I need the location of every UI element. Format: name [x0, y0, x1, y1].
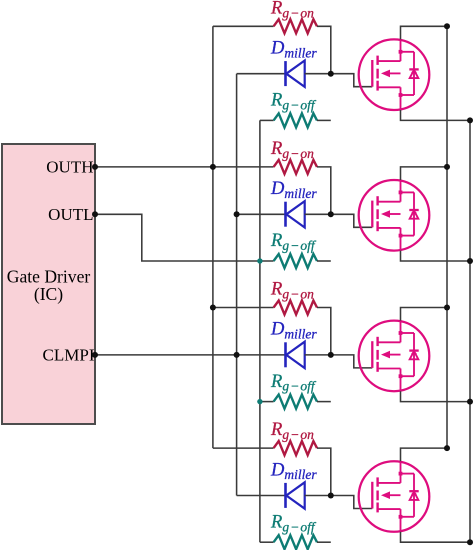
junction source bus cell 4 — [467, 539, 473, 545]
svg-text:CLMPI: CLMPI — [43, 346, 95, 365]
diode Dmiller (cell 3) — [286, 342, 305, 368]
resistor Rg-on (cell 2) — [274, 160, 317, 174]
junction clamp bus cell 3 — [234, 352, 240, 358]
junction source bus cell 3 — [467, 399, 473, 405]
resistor Rg-off (cell 1) — [274, 113, 317, 127]
junction drain bus cell 3 — [444, 305, 450, 311]
wire source lead Q3 to source bus — [401, 391, 471, 401]
transistor Q1 (MOSFET with body diode) — [359, 39, 430, 110]
transistor Q4 (MOSFET with body diode) — [359, 461, 430, 532]
wire Dmiller row cell 1: clamp bus to diode cathode — [237, 73, 286, 75]
wire gate node to MOSFET gate cell 2 — [331, 214, 373, 227]
junction pin OUTH — [92, 164, 98, 170]
resistor Rg-off (cell 2) — [274, 254, 317, 268]
wire Rg-on to gate node cell 2 — [317, 167, 331, 214]
wire gate node to MOSFET gate cell 1 — [331, 74, 373, 87]
wire Dmiller anode to gate node cell 3 — [305, 354, 331, 356]
junction gate node cell 2 — [328, 211, 334, 217]
wire Dmiller anode to gate node cell 4 — [305, 495, 331, 497]
svg-text:Rg − off: Rg − off — [270, 372, 317, 394]
junction drain bus cell 2 — [444, 164, 450, 170]
wire Dmiller row cell 2: clamp bus to diode cathode — [237, 213, 286, 215]
junction gate node cell 4 — [328, 493, 334, 499]
wire Rg-on row cell 3: bus to resistor — [213, 307, 274, 309]
junction source bus cell 2 — [467, 258, 473, 264]
wire Rg-off to gate node cell 4 — [317, 541, 331, 543]
wire Rg-off row cell 4: bus to resistor — [260, 541, 274, 543]
wire drain lead Q4 to drain bus — [401, 448, 448, 461]
junction gate node cell 3 — [328, 352, 334, 358]
wire OUTH net: pin to Rg-on bus and R2 — [95, 166, 274, 168]
transistor Q2 (MOSFET with body diode) — [359, 180, 430, 251]
svg-text:Dmiller: Dmiller — [270, 179, 317, 201]
wire Rg-off row cell 1: bus to resistor — [260, 119, 274, 121]
svg-text:Rg − on: Rg − on — [270, 280, 314, 302]
wire bus OUTL (gate-off bus) vertical — [259, 120, 261, 542]
wire drain lead Q3 to drain bus — [401, 308, 448, 321]
wire CLMPI net: pin to clamp diode bus — [95, 354, 286, 356]
junction source bus cell 1 — [467, 117, 473, 123]
junction clamp bus cell 2 — [234, 211, 240, 217]
wire Dmiller anode to gate node cell 2 — [305, 213, 331, 215]
IC name label "Gate Driver (IC)" — [7, 267, 91, 305]
gate driver IC box U1 — [2, 144, 95, 424]
wire Rg-on row cell 1: bus to resistor — [213, 25, 274, 27]
wire OUTL net: pin step down to Rg-off bus — [95, 214, 274, 261]
diode Dmiller (cell 1) — [286, 61, 305, 87]
svg-text:Rg − on: Rg − on — [270, 139, 314, 161]
svg-text:Dmiller: Dmiller — [270, 320, 317, 342]
svg-text:Rg − off: Rg − off — [270, 512, 317, 534]
svg-text:Rg − off: Rg − off — [270, 231, 317, 253]
wire Dmiller anode to gate node cell 1 — [305, 73, 331, 75]
diode Dmiller (cell 2) — [286, 201, 305, 227]
wire bus OUTH (gate-on bus) vertical — [212, 26, 214, 448]
transistor Q3 (MOSFET with body diode) — [359, 321, 430, 392]
junction pin OUTL — [92, 211, 98, 217]
wire Dmiller row cell 4: clamp bus to diode cathode — [237, 495, 286, 497]
wire gate node to MOSFET gate cell 4 — [331, 496, 373, 509]
junction OUTH bus cell 3 — [210, 305, 216, 311]
svg-text:Rg − off: Rg − off — [270, 91, 317, 113]
svg-text:OUTL: OUTL — [48, 205, 93, 224]
resistor Rg-on (cell 4) — [274, 441, 317, 455]
svg-text:Rg − on: Rg − on — [270, 420, 314, 442]
wire Rg-off to gate node cell 2 — [317, 260, 331, 262]
wire Rg-on to gate node cell 3 — [317, 308, 331, 355]
wire source lead Q1 to source bus — [401, 110, 471, 120]
wire bus CLMPI (miller clamp bus) vertical — [236, 74, 238, 496]
svg-text:Rg − on: Rg − on — [270, 0, 314, 20]
junction drain bus cell 4 — [444, 445, 450, 451]
junction pin CLMPI — [92, 352, 98, 358]
junction gate-off bus cell 2 (teal) — [257, 258, 262, 263]
wire drain lead Q1 to drain bus — [401, 26, 448, 39]
wire source lead Q4 to source bus — [401, 532, 471, 542]
wire Rg-off to gate node cell 3 — [317, 401, 331, 403]
junction gate node cell 1 — [328, 71, 334, 77]
svg-text:Dmiller: Dmiller — [270, 39, 317, 61]
junction gate-off bus cell 3 (teal) — [257, 399, 262, 404]
resistor Rg-off (cell 3) — [274, 395, 317, 409]
svg-text:OUTH: OUTH — [46, 158, 93, 177]
wire gate node to MOSFET gate cell 3 — [331, 355, 373, 368]
wire Rg-on row cell 4: bus to resistor — [213, 447, 274, 449]
svg-text:(IC): (IC) — [34, 284, 63, 304]
wire drain lead Q2 to drain bus — [401, 167, 448, 180]
wire Rg-on to gate node cell 4 — [317, 448, 331, 495]
diode Dmiller (cell 4) — [286, 482, 305, 508]
wire source lead Q2 to source bus — [401, 251, 471, 261]
wire Rg-on to gate node cell 1 — [317, 26, 331, 73]
resistor Rg-off (cell 4) — [274, 535, 317, 549]
wire source bus vertical — [469, 120, 471, 542]
resistor Rg-on (cell 1) — [274, 19, 317, 33]
wire drain bus vertical — [446, 26, 448, 448]
wire Rg-off to gate node cell 1 — [317, 119, 331, 121]
wire Rg-off row cell 3: bus to resistor — [260, 401, 274, 403]
resistor Rg-on (cell 3) — [274, 301, 317, 315]
junction OUTH bus cell 2 — [210, 164, 216, 170]
junction drain bus cell 1 — [444, 23, 450, 29]
svg-text:Dmiller: Dmiller — [270, 460, 317, 482]
